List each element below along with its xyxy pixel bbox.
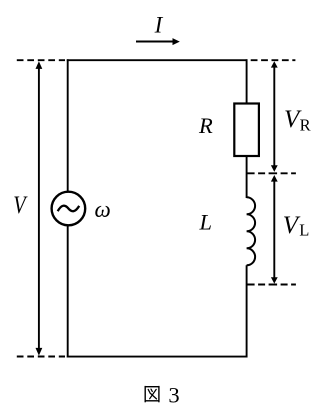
wire right upper [246,59,248,104]
voltage arrow V_R (double-headed) [271,61,278,172]
wire right middle [246,156,248,198]
wire left upper [67,59,69,191]
current arrow I [136,38,180,45]
wire top [67,59,248,61]
svg-text:R: R [300,115,311,134]
label V_R [284,106,311,134]
svg-text:L: L [199,210,213,235]
voltage arrow V_L (double-headed) [271,175,278,284]
dashed level line top-left [17,59,65,61]
dashed level line mid-right [246,172,296,174]
caption 図3 [145,383,180,408]
label R [198,113,213,138]
wire right lower [246,265,248,357]
label V_L [283,212,309,239]
wire left lower [67,226,69,358]
svg-text:L: L [299,220,309,239]
label I [154,12,164,37]
dashed level line bottom-left [17,356,65,358]
svg-text:V: V [283,212,301,239]
inductor L (coil) [247,197,256,265]
resistor R [234,104,259,157]
svg-text:ω: ω [95,197,111,222]
label L [199,210,213,235]
svg-text:I: I [154,12,164,37]
label V [13,192,28,219]
svg-text:3: 3 [168,383,179,408]
wire bottom [67,356,248,358]
svg-text:R: R [198,113,213,138]
label ω [95,197,111,222]
voltage arrow V (double-headed) [36,61,43,355]
AC source U1 (sine) [52,192,86,226]
dashed level line bottom-right [246,284,296,286]
dashed level line top-right [251,59,296,61]
svg-text:V: V [13,192,28,219]
